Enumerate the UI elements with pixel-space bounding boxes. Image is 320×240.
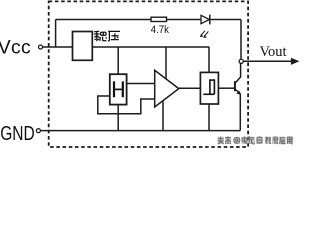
label 稳压 (regulator) drawn strokes (94, 31, 120, 41)
wire amp output (179, 87, 201, 89)
schmitt hysteresis symbol (203, 80, 214, 94)
wire tap to amp (165, 47, 167, 79)
LED emission arrows (200, 31, 208, 38)
hall element box (110, 74, 127, 104)
dashed enclosure box (49, 1, 248, 147)
svg-text:Vcc: Vcc (0, 36, 31, 58)
wire hall ground tap (117, 105, 119, 131)
resistor R 4.7k (151, 17, 167, 21)
wire tap to schmitt (208, 47, 210, 72)
label Vcc (0, 36, 31, 58)
schmitt trigger box (200, 72, 218, 104)
wire schmitt output to base (218, 87, 234, 89)
label H (114, 81, 123, 97)
wire hall right output (127, 83, 155, 85)
op-amp A1 (155, 70, 179, 107)
wire hall left output loop (98, 96, 155, 114)
wire Vcc input (43, 46, 73, 48)
Vout arrowhead (291, 58, 299, 64)
label GND (0, 122, 35, 144)
wire schmitt ground tap (208, 104, 210, 131)
wire top rail right (211, 19, 242, 21)
node output junction (239, 59, 243, 63)
label Vout (260, 44, 288, 60)
wire drop to output node (240, 20, 242, 60)
wire amp ground tap (162, 101, 164, 131)
svg-text:GND: GND (0, 122, 35, 144)
wire Vout (243, 60, 293, 62)
terminal GND (36, 129, 40, 133)
terminal Vcc (39, 45, 43, 49)
wire GND rail (41, 130, 241, 132)
wire top rail left (56, 19, 151, 21)
regulator block U1 (73, 32, 93, 61)
label 4.7k (151, 24, 170, 36)
svg-text:Vout: Vout (260, 44, 288, 60)
transistor Q1 (235, 63, 241, 130)
wire tap to hall (117, 47, 119, 74)
wire junction riser (55, 20, 57, 48)
wire Vcc internal rail (92, 46, 209, 48)
wire top rail mid (167, 19, 202, 21)
LED D1 (201, 15, 210, 25)
svg-text:4.7k: 4.7k (151, 24, 170, 36)
watermark 头条 @电气自动化应用 (218, 137, 293, 144)
